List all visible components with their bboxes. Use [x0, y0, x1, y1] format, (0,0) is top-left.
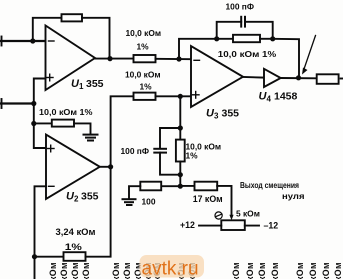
ground G1	[84, 135, 98, 141]
screw adjust symbol	[215, 212, 222, 219]
svg-text:355: 355	[86, 78, 104, 90]
svg-text:avtk.ru: avtk.ru	[142, 259, 199, 279]
svg-text:кОм: кОм	[81, 262, 91, 279]
resistor R5 10,0 kOm feedback	[233, 35, 260, 42]
svg-text:1%: 1%	[186, 151, 199, 161]
op-amp U1 355	[46, 26, 96, 91]
resistor R9 100 to ground	[161, 185, 180, 187]
node E (U2 output junction)	[108, 164, 113, 169]
wire U4 output	[281, 77, 317, 79]
node H (U3 - input junction)	[176, 56, 181, 61]
resistor R10 17 kOm	[180, 185, 194, 187]
node B (input2 junction)	[31, 101, 36, 106]
svg-text:+12: +12	[180, 220, 195, 230]
svg-text:кОм: кОм	[70, 262, 80, 279]
node N	[178, 184, 183, 189]
wire feedback to output	[273, 39, 299, 78]
node C (R4 junction)	[31, 121, 36, 126]
terminal input 1	[1, 37, 3, 46]
svg-text:кОм: кОм	[270, 262, 280, 279]
ground G2	[123, 199, 136, 205]
svg-text:кОм: кОм	[122, 262, 132, 279]
resistor R3 10,0 kOm	[134, 93, 156, 100]
wire R3 right	[156, 95, 192, 97]
wire to R5	[217, 38, 233, 40]
resistor R7 3,24 kOm	[64, 252, 86, 261]
wire to right edge	[341, 78, 343, 80]
op-amp U3 355	[191, 46, 243, 107]
svg-text:100: 100	[142, 197, 156, 207]
bottom cropped rotated value labels	[48, 262, 343, 279]
node K (output junction)	[296, 75, 301, 80]
wire up to R3	[111, 96, 134, 167]
capacitor C1 100 pF branch	[160, 128, 180, 148]
svg-text:кОм: кОм	[59, 262, 69, 279]
wire U2 output	[100, 166, 111, 168]
wire down to edge	[34, 257, 36, 279]
svg-text:кОм: кОм	[333, 262, 343, 279]
terminal input 2	[1, 99, 3, 108]
svg-text:4: 4	[267, 95, 272, 104]
svg-text:1%: 1%	[137, 42, 150, 52]
svg-text:кОм: кОм	[48, 262, 58, 279]
svg-text:100 пФ: 100 пФ	[226, 2, 255, 12]
wire to R7	[35, 256, 64, 258]
svg-text:кОм: кОм	[308, 262, 318, 279]
op-amp U2 355	[46, 135, 100, 200]
wire F down to R6	[179, 96, 181, 139]
svg-text:17 кОм: 17 кОм	[193, 194, 223, 204]
svg-text:355: 355	[81, 191, 99, 203]
svg-text:нуля: нуля	[282, 191, 305, 201]
wire U1 + input	[34, 79, 46, 149]
svg-text:5 кОм: 5 кОм	[236, 209, 260, 219]
wire pot right	[245, 225, 259, 227]
svg-text:кОм: кОм	[295, 262, 305, 279]
capacitor C2 100 pF	[217, 22, 242, 39]
resistor R8 output	[317, 74, 339, 84]
svg-text:355: 355	[222, 108, 240, 120]
wire R5 right	[260, 38, 273, 40]
svg-text:1%: 1%	[65, 242, 83, 253]
resistor R2 10,0 kOm	[134, 55, 156, 62]
svg-text:Выход смещения: Выход смещения	[240, 180, 299, 190]
svg-text:10,0 кОм 1%: 10,0 кОм 1%	[218, 49, 277, 59]
wire R6 down	[179, 162, 181, 187]
svg-text:кОм: кОм	[111, 262, 121, 279]
potentiometer RP 5 kOm	[221, 220, 245, 230]
wire U2 - input down	[35, 186, 47, 256]
resistor R4 10,0 kOm 1%	[52, 120, 74, 127]
wire U3 to U4	[243, 76, 264, 79]
wire U3 feedback left	[179, 39, 217, 59]
svg-text:10,0 кОм: 10,0 кОм	[126, 28, 162, 38]
svg-text:1%: 1%	[140, 82, 153, 92]
svg-text:10,0 кОм: 10,0 кОм	[125, 70, 161, 80]
wire R7 right	[86, 167, 111, 257]
wire to R4	[34, 122, 52, 124]
wire pot left	[199, 225, 221, 227]
node G (U1 output junction)	[107, 56, 112, 61]
wire U1 output	[95, 58, 134, 60]
svg-text:кОм: кОм	[257, 262, 267, 279]
svg-text:–12: –12	[264, 221, 279, 231]
svg-text:3,24 кОм: 3,24 кОм	[56, 227, 96, 237]
node I	[214, 36, 219, 41]
svg-text:3: 3	[214, 112, 219, 121]
svg-text:кОм: кОм	[321, 262, 331, 279]
node L (cap tap)	[178, 125, 183, 130]
node M	[178, 172, 183, 177]
wire input 1	[0, 40, 46, 42]
svg-text:кОм: кОм	[245, 262, 255, 279]
wire R4 to ground	[74, 123, 91, 134]
annotation arrow to output node	[302, 36, 316, 75]
node J	[270, 36, 275, 41]
svg-text:100 пФ: 100 пФ	[121, 146, 150, 156]
wire U1 feedback left	[33, 18, 62, 41]
resistor R6 10,0 kOm vertical	[176, 140, 185, 162]
svg-text:1458: 1458	[274, 91, 298, 103]
svg-text:1: 1	[79, 82, 84, 91]
node A (U1 inverting input junction)	[30, 38, 35, 43]
svg-text:кОм: кОм	[231, 262, 241, 279]
node F (U3 + input)	[178, 94, 183, 99]
wire R2 right	[156, 58, 192, 60]
svg-text:10,0 кОм 1%: 10,0 кОм 1%	[39, 107, 93, 117]
svg-text:2: 2	[74, 195, 79, 204]
wire U1 feedback right	[82, 18, 110, 59]
node D (R7 left junction)	[32, 254, 37, 259]
wire input 2	[0, 102, 34, 104]
op-amp U4 1458	[264, 69, 281, 87]
resistor R1 (U1 feedback)	[62, 14, 83, 21]
watermark avtk.ru	[140, 255, 205, 279]
wire R10 to pot wiper	[217, 186, 231, 216]
